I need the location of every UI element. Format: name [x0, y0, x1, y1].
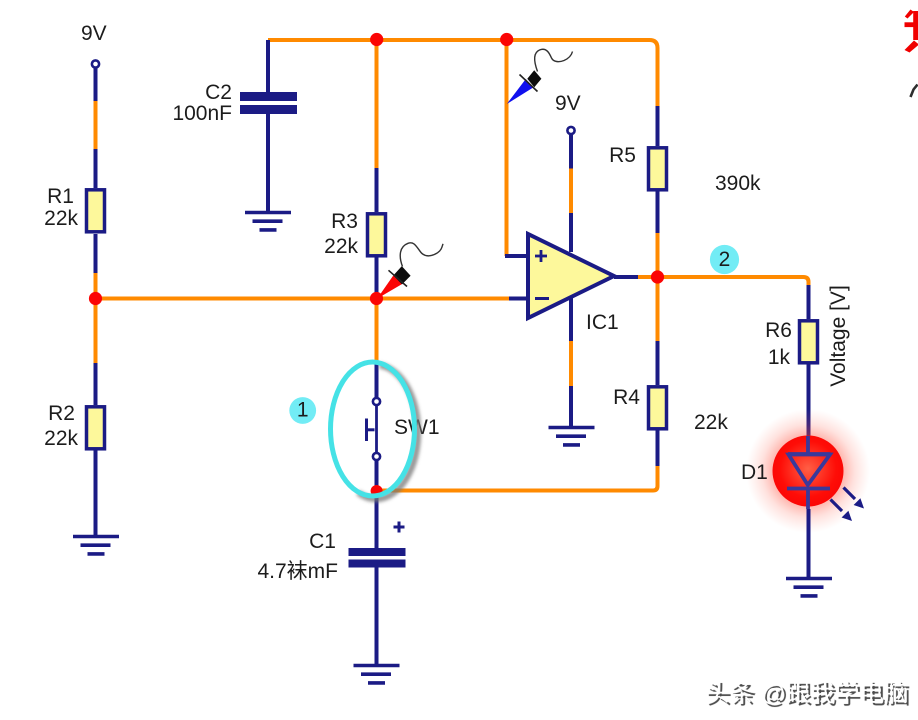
resistor R1 — [87, 190, 105, 232]
wire op-amp plus pin (navy) — [505, 254, 529, 258]
resistor R5 — [649, 148, 667, 190]
wire R5 bottom pin (navy) — [656, 191, 660, 233]
wire C1 bottom pin (navy) — [375, 567, 379, 665]
svg-text:Voltage [V]: Voltage [V] — [827, 285, 850, 387]
svg-text:22k: 22k — [44, 207, 78, 230]
resistor R3 — [368, 214, 386, 256]
junction switch bottom — [371, 485, 383, 497]
op-amp plus sign — [535, 250, 547, 262]
svg-text:C2: C2 — [205, 81, 232, 104]
resistor R6 — [800, 321, 818, 363]
wire node A to R2 (orange) — [94, 299, 98, 364]
wire ground pin (navy) — [569, 386, 573, 427]
svg-text:C1: C1 — [309, 530, 336, 553]
svg-text:R3: R3 — [331, 210, 358, 233]
wire switch top pin (navy) — [375, 364, 379, 398]
wire C2 top pin (navy) — [266, 40, 270, 93]
svg-text:9V: 9V — [555, 92, 581, 115]
wire switch bottom pin (navy) — [375, 461, 379, 548]
annotation badge 1 — [289, 397, 316, 424]
wire R3 bottom pin (navy) — [375, 256, 379, 299]
wire op-amp vee pin (navy) — [569, 297, 573, 341]
wire R5 top pin (navy) — [656, 106, 660, 146]
svg-text:R2: R2 — [48, 402, 75, 425]
wire top rail with corner (orange) — [268, 40, 658, 106]
capacitor C1 — [349, 548, 406, 568]
LED D1 body — [773, 436, 844, 507]
probe blue (on plus input column) — [507, 49, 573, 104]
annotation badge 2 — [710, 245, 739, 274]
svg-text:390k: 390k — [715, 172, 761, 195]
wire R5 to output node (orange) — [656, 233, 660, 277]
wire 9V right stub (navy) — [569, 134, 573, 169]
annotation cyan ellipse around SW1 — [331, 362, 415, 496]
wire R3 column top (orange) — [375, 40, 379, 168]
switch SW1 — [367, 398, 381, 460]
capacitor C2 — [240, 92, 297, 114]
resistor R4 — [649, 387, 667, 429]
LED D1 glow — [746, 409, 870, 533]
ground under op-amp — [549, 428, 595, 445]
junction node A — [89, 292, 102, 305]
op-amp U1 triangle — [528, 234, 614, 318]
wire output node to R4 (orange) — [656, 277, 660, 341]
wire 9V right (orange) — [569, 169, 573, 214]
resistor R2 — [87, 407, 105, 449]
svg-text:4.7袜mF: 4.7袜mF — [257, 560, 338, 583]
svg-text:22k: 22k — [44, 427, 78, 450]
wire R1 top pin (navy) — [94, 149, 98, 188]
wire middle rail node A to op-amp minus (orange) — [96, 297, 510, 301]
junction dot top rail at R3 — [370, 33, 383, 46]
svg-text:R1: R1 — [47, 185, 74, 208]
svg-text:22k: 22k — [694, 411, 728, 434]
wire R6 to LED (navy) — [807, 364, 811, 454]
ground under C1 — [354, 666, 400, 683]
wire R4 top pin (navy) — [656, 341, 660, 385]
terminal 9V right — [567, 127, 574, 134]
wire 9V to R1 (orange segment) — [94, 101, 98, 149]
svg-text:R6: R6 — [765, 319, 792, 342]
svg-text:1: 1 — [297, 399, 309, 422]
junction node B at R3 bottom — [370, 292, 383, 305]
decorative red character fragment top right — [905, 10, 918, 53]
wire bottom rail switch to R4 (orange) — [380, 466, 658, 491]
svg-text:22k: 22k — [324, 235, 358, 258]
wire 9V top-left stub (navy) — [94, 68, 98, 101]
svg-text:1k: 1k — [768, 346, 791, 369]
svg-text:2: 2 — [719, 248, 731, 271]
wire op-amp output pin (navy) — [614, 275, 638, 279]
wire R6 top pin (navy) — [807, 285, 811, 319]
svg-text:IC1: IC1 — [586, 311, 619, 334]
wire op-amp vee to ground (orange) — [569, 341, 573, 386]
wire R2 bottom pin (navy) — [94, 449, 98, 536]
wire node B to switch (orange) — [375, 299, 379, 365]
wire R1 bottom pin (navy) — [94, 234, 98, 273]
junction output node — [651, 270, 664, 283]
wire op-amp plus input column (orange) — [505, 40, 509, 256]
wire R2 top pin (navy) — [94, 363, 98, 405]
op-amp minus sign — [535, 297, 549, 300]
ground under LED — [786, 579, 832, 596]
ground under C2 — [245, 213, 291, 230]
wire op-amp vcc pin (navy) — [569, 213, 573, 252]
terminal 9V left — [92, 60, 99, 67]
svg-text:R5: R5 — [609, 144, 636, 167]
wire R3 top pin (navy) — [375, 168, 379, 212]
svg-text:D1: D1 — [741, 461, 768, 484]
LED D1 diode symbol — [787, 436, 831, 509]
decorative dark character fragment right edge — [911, 85, 918, 98]
annotation shadow ellipse — [358, 365, 418, 499]
ground under R2 — [73, 537, 119, 554]
capacitor C1 polarity plus — [394, 522, 405, 533]
probe red (on node B) — [377, 243, 443, 299]
junction dot top rail at op-amp plus column — [500, 33, 513, 46]
wire R4 bottom pin (navy) — [656, 429, 660, 466]
wire output to node 2 rail (orange) — [638, 277, 809, 288]
wire C2 bottom pin (navy) — [266, 114, 270, 212]
svg-text:100nF: 100nF — [172, 102, 232, 125]
watermark — [705, 674, 915, 709]
wire LED to ground (navy) — [807, 509, 811, 578]
svg-text:9V: 9V — [81, 22, 107, 45]
wire R1 to node A (orange) — [94, 273, 98, 299]
LED D1 emission arrows — [831, 488, 865, 522]
wire op-amp minus pin (navy) — [509, 297, 529, 301]
svg-text:R4: R4 — [613, 386, 640, 409]
